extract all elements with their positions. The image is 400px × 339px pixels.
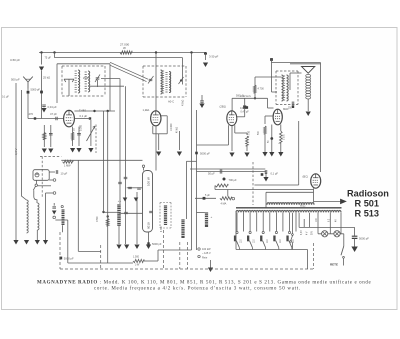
svg-text:5000 pF: 5000 pF (64, 256, 74, 260)
svg-text:5000 pF: 5000 pF (359, 237, 369, 241)
svg-text:A0-C: A0-C (168, 100, 174, 104)
svg-text:6,3 V: 6,3 V (14, 148, 18, 155)
svg-text:4 MA: 4 MA (221, 203, 227, 206)
svg-text:MAGNADYNE RADIO : Modd. K 100,: MAGNADYNE RADIO : Modd. K 100, K 110, M … (37, 280, 372, 285)
svg-text:+ +: + + (118, 200, 122, 203)
svg-text:0,1 µF: 0,1 µF (80, 114, 88, 118)
svg-text:5 µF: 5 µF (205, 194, 210, 197)
svg-text:40 kΩ: 40 kΩ (182, 99, 185, 106)
svg-text:3-30 pF: 3-30 pF (209, 55, 219, 59)
svg-text:75 µF: 75 µF (45, 57, 52, 60)
svg-text:4.700: 4.700 (258, 88, 265, 91)
svg-text:3 W: 3 W (135, 263, 140, 266)
svg-text:Rete: Rete (202, 257, 208, 260)
svg-text:100 W: 100 W (146, 177, 150, 186)
svg-text:4.700: 4.700 (248, 130, 251, 137)
svg-text:R 513: R 513 (355, 208, 380, 218)
svg-text:6019: 6019 (146, 222, 150, 229)
svg-text:7700: 7700 (96, 216, 99, 222)
svg-text:4 700: 4 700 (161, 226, 163, 232)
svg-text:500 pF: 500 pF (11, 78, 20, 82)
svg-text:4 V: 4 V (306, 231, 308, 235)
svg-text:T.4B1: T.4B1 (79, 109, 87, 113)
svg-text:5000 pF: 5000 pF (31, 88, 41, 92)
svg-text:3-50 pF: 3-50 pF (10, 58, 20, 62)
svg-text:100 kW: 100 kW (202, 248, 211, 251)
svg-text:0,1: 0,1 (240, 107, 244, 110)
svg-text:W: W (123, 46, 126, 50)
svg-text:40 kΩ: 40 kΩ (177, 127, 179, 133)
svg-text:10.000: 10.000 (170, 123, 173, 131)
svg-text:10 µF: 10 µF (61, 172, 68, 176)
svg-text:50V: 50V (312, 230, 314, 235)
svg-text:6,3V: 6,3V (301, 230, 303, 235)
svg-text:470: 470 (29, 112, 34, 116)
svg-text:5.000: 5.000 (284, 134, 286, 140)
svg-text:(BC): (BC) (303, 175, 309, 179)
svg-text:0,1 µF: 0,1 µF (271, 172, 279, 176)
svg-text:5.000: 5.000 (80, 124, 83, 131)
svg-text:50 µF: 50 µF (208, 172, 215, 176)
svg-text:RETE: RETE (330, 262, 338, 266)
svg-text:47 pF: 47 pF (50, 112, 57, 116)
svg-text:a 4/2 kc/s: a 4/2 kc/s (240, 95, 251, 98)
svg-text:5000 pF: 5000 pF (152, 242, 162, 246)
svg-text:4V: 4V (336, 219, 338, 222)
svg-text:+: + (211, 215, 213, 219)
svg-text:700 µF: 700 µF (229, 178, 238, 182)
svg-text:1,2E1: 1,2E1 (143, 108, 151, 112)
svg-text:25 kΩ: 25 kΩ (43, 76, 50, 80)
svg-text:Radioson: Radioson (347, 189, 389, 199)
svg-text:(2B1): (2B1) (220, 105, 227, 109)
svg-text:1 MW: 1 MW (64, 165, 71, 168)
svg-text:0,47 µF: 0,47 µF (241, 110, 250, 113)
svg-text:1.500: 1.500 (133, 256, 140, 259)
svg-text:corte. Media frequenza a 4/2 k: corte. Media frequenza a 4/2 kc/s. Poten… (94, 287, 301, 292)
svg-text:5000 pF: 5000 pF (200, 152, 210, 156)
svg-text:R 501: R 501 (355, 198, 380, 208)
svg-text:0,1 µF: 0,1 µF (2, 96, 9, 99)
svg-text:0,04 µF: 0,04 µF (48, 105, 58, 109)
svg-text:~ 125 V: ~ 125 V (202, 252, 211, 255)
